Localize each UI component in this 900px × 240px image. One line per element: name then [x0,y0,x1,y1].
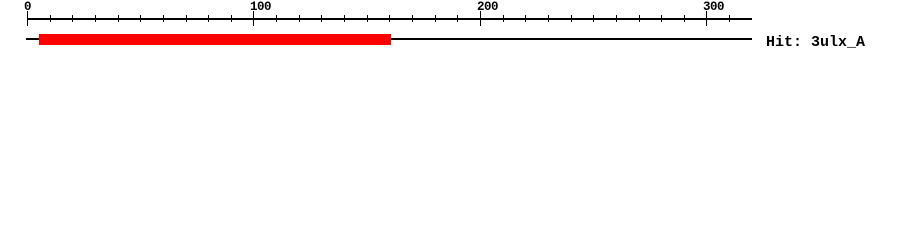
ruler label 300 [703,1,724,14]
ruler label 0 [24,1,31,14]
query line [26,38,752,40]
major tick 300 [706,11,707,26]
major tick 200 [480,11,481,26]
ruler label 100 [250,1,271,14]
major tick 100 [253,11,254,26]
minor ticks (every 10 residues) [0,0,900,1]
hit alignment bar (red) [39,34,391,45]
major tick 0 [27,11,28,26]
hit name text [766,35,865,50]
ruler label 200 [477,1,498,14]
ruler line [27,18,752,20]
